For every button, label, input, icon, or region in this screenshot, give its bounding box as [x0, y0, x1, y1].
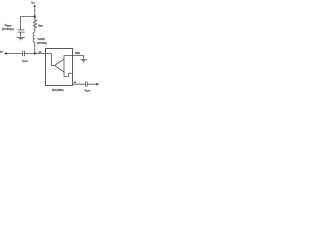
svg-text:OUT: OUT — [38, 52, 42, 54]
svg-text:MAX9811: MAX9811 — [52, 88, 64, 92]
svg-text:CBLOCK: CBLOCK — [22, 59, 29, 62]
svg-text:RBIAS: RBIAS — [38, 23, 43, 27]
svg-text:(OPTIONAL): (OPTIONAL) — [2, 27, 14, 31]
svg-text:CBLOCK: CBLOCK — [85, 89, 91, 92]
svg-text:CHOKE: CHOKE — [38, 37, 45, 41]
svg-text:(OPTIONAL): (OPTIONAL) — [37, 41, 47, 45]
svg-text:GND: GND — [75, 51, 80, 55]
svg-text:OUT: OUT — [0, 50, 4, 54]
svg-text:IN: IN — [74, 82, 77, 84]
svg-text:VCC: VCC — [31, 1, 35, 5]
